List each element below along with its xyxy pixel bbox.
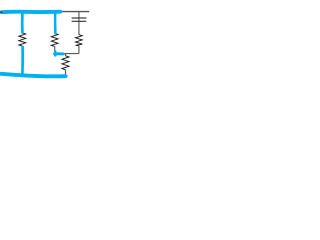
wire branch B lower lead <box>54 46 56 54</box>
highlighter stroke over branch A lower lead <box>21 47 24 74</box>
highlighter stroke over mid rail start <box>55 52 64 55</box>
wire branch A lower lead <box>21 46 23 76</box>
resistor R1 <box>19 33 26 46</box>
wire branch D lower lead <box>65 70 67 76</box>
resistor R4 <box>62 56 69 70</box>
capacitor C1 plate 1 <box>72 17 87 19</box>
bottom rail wire <box>22 75 65 77</box>
highlighter stroke over bottom rail <box>0 74 66 77</box>
highlighter stroke over branch B lower lead and mid rail <box>54 51 57 55</box>
wire branch D upper lead <box>65 54 67 56</box>
pen touch speck at stroke origin <box>0 11 3 13</box>
resistor R2 <box>51 33 58 46</box>
wire branch C lower lead <box>78 46 80 54</box>
top rail wire <box>0 11 89 13</box>
highlighter stroke over branch A <box>21 12 24 33</box>
capacitor C1 plate 2 <box>72 20 87 22</box>
highlighter stroke over top rail <box>2 10 60 14</box>
wire branch A upper lead <box>21 11 23 33</box>
highlighter stroke over branch B upper lead <box>54 12 57 33</box>
wire branch B upper lead <box>54 11 56 33</box>
wire branch C upper lead <box>78 11 80 34</box>
mid rail wire <box>55 53 79 55</box>
resistor R3 <box>76 35 83 46</box>
